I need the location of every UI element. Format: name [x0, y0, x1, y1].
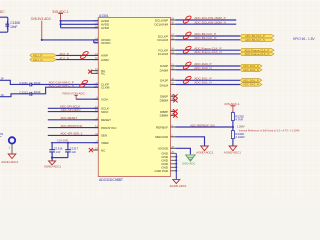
- svg-text:IOGND: IOGND: [158, 147, 169, 151]
- wire DCLKM: [175, 39, 240, 41]
- svg-text:DB8M: DB8M: [160, 114, 169, 118]
- wire DCLKP: [175, 35, 240, 37]
- NC cross DB8M: [173, 113, 177, 117]
- wire GND bus: [175, 153, 177, 179]
- op-amp U1301 ADC IC body: [98, 14, 170, 182]
- node junctions on AVDD bus: [60, 20, 62, 26]
- svg-text:DB0M: DB0M: [160, 99, 169, 103]
- svg-text:U1301: U1301: [99, 14, 109, 18]
- svg-text:RESET: RESET: [101, 118, 111, 122]
- svg-text:DA1M: DA1M: [160, 83, 169, 87]
- port ADC-DA0_N: [240, 68, 262, 72]
- svg-text:AGND-ADC1: AGND-ADC1: [1, 160, 18, 164]
- svg-text:C1A-1NF: C1A-1NF: [57, 139, 69, 143]
- ground AGND-ADC1 hole: [1, 154, 18, 164]
- resistor R1302: [231, 112, 244, 128]
- port ADC-Frame-CLK_N: [240, 52, 274, 56]
- power port 3V8-ADC-1: [52, 10, 69, 21]
- diff pair symbol CLK: [79, 80, 88, 88]
- svg-text:3VDC: 3VDC: [0, 10, 5, 14]
- wire DCLKINM: [175, 23, 236, 25]
- capacitor C1317: [65, 143, 78, 158]
- svg-text:GND PAD: GND PAD: [155, 169, 169, 173]
- ground GND-ADC green: [182, 155, 196, 165]
- wire DCLKINP: [175, 19, 236, 21]
- power port 3V8-3V3-ADC: [31, 17, 52, 40]
- svg-text:1nF: 1nF: [55, 150, 60, 154]
- wire AINM: [56, 59, 98, 61]
- wire CLKM with capacitor C1312: [0, 87, 98, 97]
- svg-text:ADC-SPI-SEN_2: ADC-SPI-SEN_2: [61, 132, 83, 136]
- svg-text:ADC-CLK-604-C_N: ADC-CLK-604-C_N: [49, 84, 74, 88]
- NC cross left: [88, 70, 92, 74]
- wire FCLKP: [175, 49, 240, 51]
- mounting hole H1301: [0, 133, 15, 154]
- svg-text:3V8-3V3-ADC: 3V8-3V3-ADC: [31, 17, 52, 21]
- right wiring: [170, 15, 316, 188]
- svg-text:ADC-DCLKIN-160M_N: ADC-DCLKIN-160M_N: [194, 20, 226, 24]
- capacitor C1308 block (clipped at left edge): [0, 17, 20, 32]
- wire RESET: [48, 119, 99, 121]
- port ADJ_N: [30, 58, 56, 62]
- svg-text:4.7kR: 4.7kR: [235, 118, 243, 122]
- power port P0V9-VCM-ADC: [63, 92, 86, 100]
- ground AGND-ADC1 below caps: [44, 156, 61, 168]
- wire AINP: [56, 54, 98, 56]
- svg-text:ADC-Frame-CLK_N: ADC-Frame-CLK_N: [245, 52, 270, 56]
- svg-text:10nF: 10nF: [34, 90, 41, 94]
- svg-text:ADC-DA1_N: ADC-DA1_N: [194, 81, 212, 85]
- svg-text:C1312: C1312: [19, 90, 28, 94]
- svg-text:SEN: SEN: [101, 134, 107, 138]
- wire cap bottoms: [52, 157, 68, 159]
- wire VCM: [76, 98, 98, 100]
- bottom area: [0, 133, 19, 164]
- svg-text:ADC-DA1_N: ADC-DA1_N: [243, 83, 259, 87]
- wire IOVDD: [42, 40, 99, 43]
- wire SCLK: [48, 107, 99, 109]
- svg-text:ADC-DA0_N: ADC-DA0_N: [194, 66, 212, 70]
- svg-text:VREF: VREF: [101, 141, 109, 145]
- svg-text:1N: 1N: [1, 94, 4, 97]
- svg-text:ADC-SPI-SDIO: ADC-SPI-SDIO: [61, 108, 82, 112]
- wire REFGND: [175, 137, 204, 146]
- svg-text:2.16kR: 2.16kR: [235, 135, 244, 139]
- wire IOGND: [175, 148, 190, 154]
- ground AGND-ADC1 REFGND: [196, 146, 213, 154]
- wire CLKP with capacitor C1311: [0, 78, 98, 87]
- diff pair symbol DCLKIN: [183, 15, 192, 23]
- svg-text:ADJ_N: ADJ_N: [33, 58, 43, 62]
- port ADJ_P: [30, 54, 56, 58]
- NC cross DB8P: [173, 109, 177, 113]
- svg-text:10nF: 10nF: [34, 81, 41, 85]
- svg-text:GND-ADC: GND-ADC: [182, 161, 196, 165]
- svg-text:AINM: AINM: [101, 58, 109, 62]
- svg-text:CLKM: CLKM: [101, 86, 110, 90]
- power port 3V8-ADC-1 right: [224, 102, 240, 112]
- svg-text:ADC-Bit-CLK_N: ADC-Bit-CLK_N: [194, 36, 216, 40]
- node cap C1317 top: [67, 142, 69, 144]
- left wiring: [0, 10, 98, 169]
- port ADC-DA1_P: [240, 79, 262, 83]
- wire VREF: [51, 142, 98, 144]
- svg-text:REFBUF: REFBUF: [156, 125, 168, 129]
- wire DA0M: [175, 69, 240, 71]
- svg-text:AGND-ADC1: AGND-ADC1: [196, 150, 213, 154]
- svg-text:ADC31DC08BT: ADC31DC08BT: [99, 178, 123, 182]
- svg-text:1nF: 1nF: [71, 150, 76, 154]
- IC left pin names: [101, 19, 117, 152]
- node REFBUF junction: [232, 126, 234, 128]
- svg-text:IOVDD: IOVDD: [101, 41, 111, 45]
- svg-text:C1311: C1311: [19, 81, 28, 85]
- IC pin stubs right: [171, 20, 177, 171]
- svg-text:ADC-DA0_N: ADC-DA0_N: [243, 68, 259, 72]
- wire FCLKM: [175, 53, 240, 55]
- resistor R1303: [231, 127, 244, 146]
- wire DA1P: [175, 79, 240, 81]
- port ADC-Bit-CLK_P: [240, 34, 274, 38]
- diff pair symbol FCLK: [183, 46, 192, 54]
- svg-text:ADC-PDN/SYNC: ADC-PDN/SYNC: [61, 124, 83, 128]
- diff pair symbol DCLK: [183, 31, 192, 39]
- svg-text:VCM: VCM: [101, 98, 108, 102]
- wire DA1M: [175, 84, 240, 86]
- svg-text:DA0M: DA0M: [160, 69, 169, 73]
- svg-text:ADC-Frame-CLK_N: ADC-Frame-CLK_N: [194, 50, 222, 54]
- port ADC-DA1_N: [240, 83, 262, 87]
- port ADC-Bit-CLK_N: [240, 38, 274, 42]
- svg-text:ADC-RESET: ADC-RESET: [61, 116, 78, 120]
- port ADC-Frame-CLK_P: [240, 48, 274, 52]
- svg-text:10nF: 10nF: [10, 25, 17, 29]
- svg-text:FCLKM: FCLKM: [158, 52, 169, 56]
- svg-text:1.304V: 1.304V: [237, 125, 245, 128]
- svg-text:P0V9-VCM-ADC: P0V9-VCM-ADC: [63, 92, 86, 96]
- NC cross DB0P: [173, 94, 177, 98]
- svg-text:ADC-Bit-CLK_N: ADC-Bit-CLK_N: [245, 38, 265, 42]
- svg-text:Internal Reference is Still Us: Internal Reference is Still Used in 3.3 …: [239, 129, 300, 132]
- ground AGND-ADC1 bottom: [170, 179, 187, 188]
- svg-text:SDIO: SDIO: [101, 110, 109, 114]
- svg-text:DA0P: DA0P: [160, 64, 168, 68]
- svg-text:PDN/SYNC: PDN/SYNC: [101, 126, 117, 130]
- port ADC-DA0_P: [240, 64, 262, 68]
- wire SDIO: [48, 111, 99, 113]
- wire AVDD bus: [61, 21, 99, 28]
- svg-text:DA1P: DA1P: [160, 78, 168, 82]
- wire SEN: [48, 134, 99, 136]
- svg-text:ADJ_N: ADJ_N: [59, 56, 69, 60]
- wire PDN/SYNC: [48, 127, 99, 129]
- IC pin numbers: [95, 18, 98, 150]
- wire DA0P: [175, 65, 240, 67]
- svg-text:1P: 1P: [1, 78, 4, 81]
- diff pair symbol AIN: [80, 51, 89, 59]
- capacitor C1316: [49, 143, 62, 158]
- svg-text:AVDD: AVDD: [101, 26, 110, 30]
- NC cross DB0M: [173, 98, 177, 102]
- svg-text:DCLKINM: DCLKINM: [154, 23, 168, 27]
- IC pin stubs left: [91, 21, 98, 150]
- svg-text:HPIO 66 - 1.8V: HPIO 66 - 1.8V: [293, 37, 315, 41]
- wire REFBUF: [175, 126, 233, 128]
- node: [41, 39, 43, 41]
- svg-text:ADC-REFBUF (2V): ADC-REFBUF (2V): [190, 123, 215, 127]
- ground AGND-ADC1 under R1303: [224, 146, 241, 154]
- svg-text:DCLKM: DCLKM: [157, 38, 168, 42]
- svg-text:REFGND: REFGND: [155, 135, 169, 139]
- NC cross VREF-NC pin: [89, 148, 93, 152]
- svg-text:AGND-ADC1: AGND-ADC1: [170, 184, 187, 188]
- diff pair symbol DA1: [183, 76, 192, 84]
- svg-text:AGND-ADC1: AGND-ADC1: [224, 150, 241, 154]
- diff pair symbol DA0: [183, 61, 192, 69]
- IC right pin names: [154, 18, 168, 173]
- node GND junctions: [175, 156, 177, 172]
- svg-text:AGND-ADC1: AGND-ADC1: [44, 164, 61, 168]
